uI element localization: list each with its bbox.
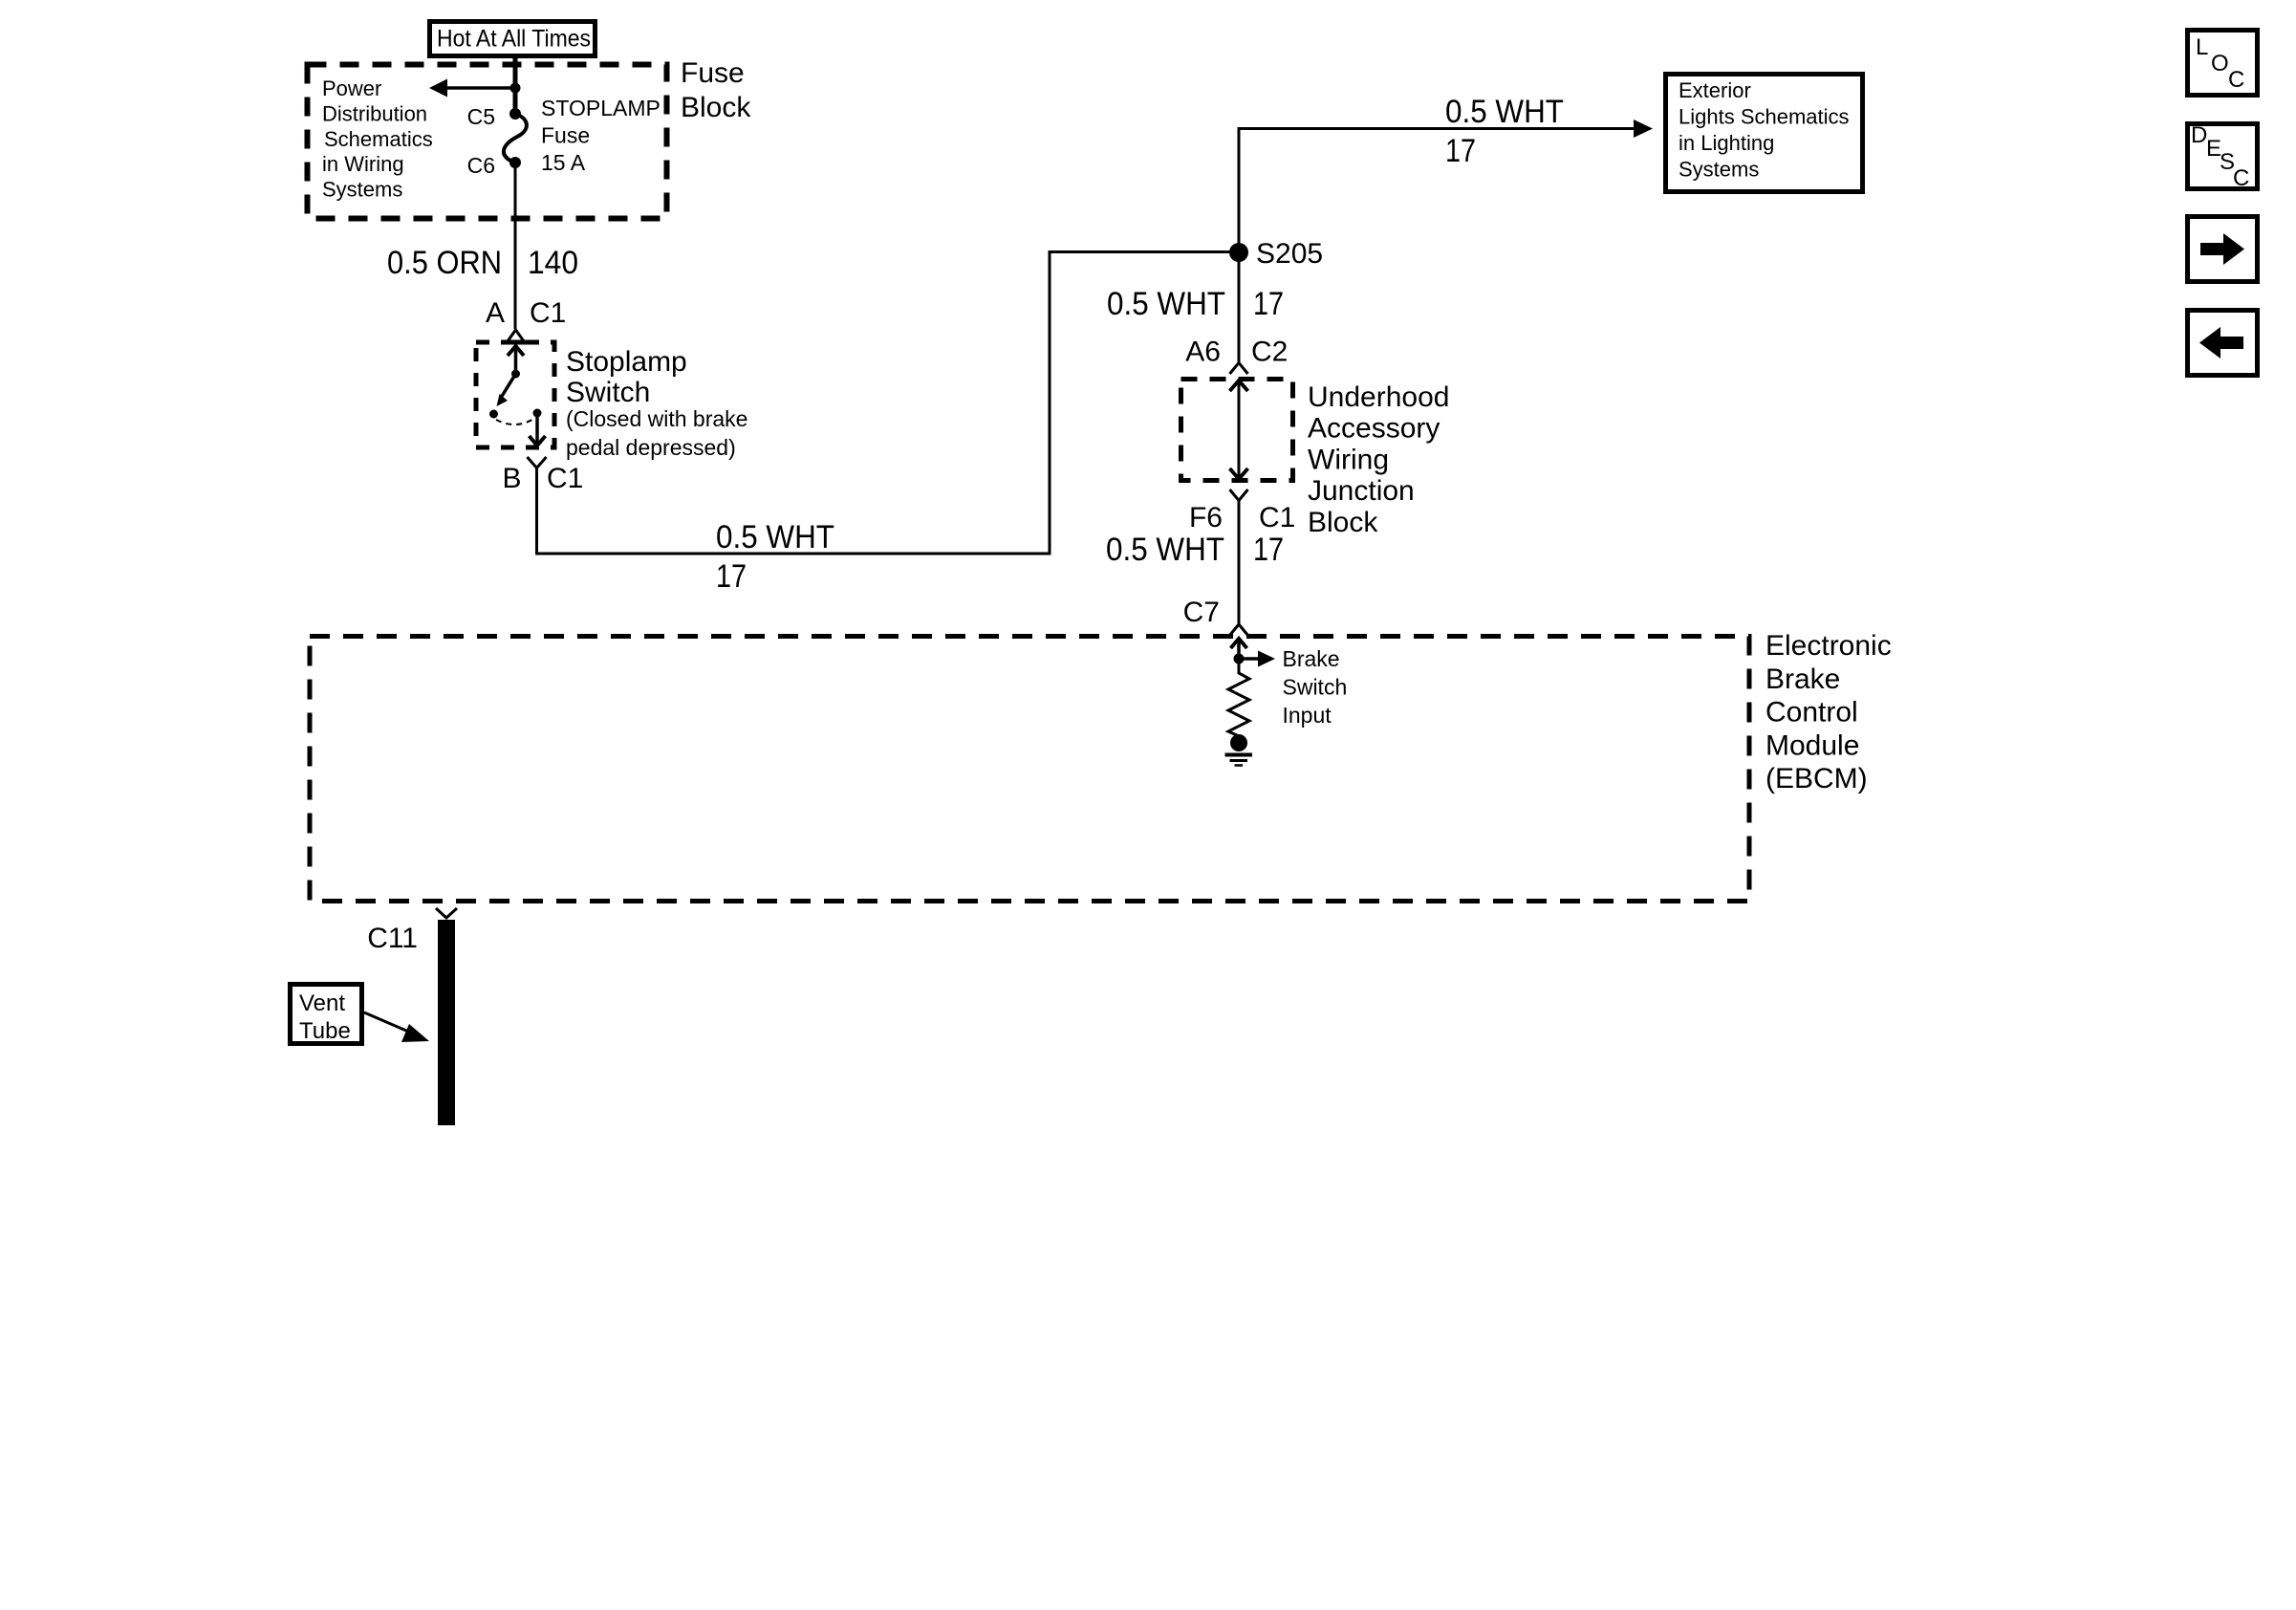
svg-text:Stoplamp: Stoplamp [566,346,687,378]
switch contact dot (left, open position) [489,410,498,419]
svg-text:Junction: Junction [1308,475,1415,507]
node: brake switch input junction dot [1234,654,1245,664]
svg-text:Exterior: Exterior [1679,78,1751,102]
svg-text:Fuse: Fuse [681,57,745,89]
svg-text:pedal depressed): pedal depressed) [566,435,736,460]
svg-text:Accessory: Accessory [1308,413,1440,445]
svg-text:Underhood: Underhood [1308,381,1449,413]
svg-text:Fuse: Fuse [541,123,590,148]
svg-text:D: D [2191,122,2207,148]
DESC nav box [2188,122,2258,191]
svg-text:Block: Block [681,92,751,123]
connector chevron at pin C7 [1230,624,1248,636]
svg-text:17: 17 [1253,532,1284,568]
svg-text:Wiring: Wiring [1308,444,1389,475]
wire: S205 up and right to exterior lights [1239,129,1636,253]
arrowhead left [429,79,447,98]
connector chevron at pin B [528,457,547,468]
svg-text:S205: S205 [1256,238,1323,270]
svg-text:17: 17 [716,558,747,595]
Hot At All Times box [430,22,596,56]
fuse element (S curve) [504,114,527,161]
junction node on feed wire [510,83,521,94]
svg-text:Distribution: Distribution [322,101,427,125]
arrowhead to exterior lights [1634,120,1653,138]
connector chevron at pin A [508,330,524,341]
switch fixed contact bar [502,340,530,345]
svg-text:(EBCM): (EBCM) [1765,763,1868,794]
svg-text:0.5 WHT: 0.5 WHT [1106,532,1224,568]
svg-text:Systems: Systems [322,178,402,202]
wire: B down, right, up to S205 [537,252,1240,555]
connector chevron at pin F6 [1230,490,1248,501]
EBCM dashed box [310,637,1749,902]
fuse block dashed box [308,65,667,219]
svg-text:(Closed with brake: (Closed with brake [566,406,747,431]
wire: feed from Hot At All Times into fuse block [513,55,518,114]
svg-text:F6: F6 [1189,502,1223,533]
svg-text:Systems: Systems [1679,158,1759,182]
fuse terminal C6 [509,157,521,168]
svg-text:Tube: Tube [299,1018,351,1044]
svg-text:0.5 WHT: 0.5 WHT [716,519,834,555]
svg-text:A: A [486,297,505,329]
junction block arrowhead down (at bottom edge) [1230,468,1248,479]
svg-text:15 A: 15 A [541,150,586,175]
switch arm arrowhead [497,394,509,406]
svg-text:C1: C1 [547,463,583,494]
svg-text:17: 17 [1445,133,1476,169]
svg-text:0.5 ORN: 0.5 ORN [387,245,502,281]
svg-text:140: 140 [528,245,578,281]
connector chevron at pin A6 [1230,363,1248,375]
svg-text:Hot At All Times: Hot At All Times [437,26,591,53]
switch pivot dot [511,370,520,379]
svg-text:0.5 WHT: 0.5 WHT [1445,94,1564,130]
exterior lights schematics box [1666,75,1863,192]
underhood accessory wiring junction block dashed box [1181,380,1293,481]
svg-text:17: 17 [1253,286,1284,322]
switch travel dashed arc [496,418,535,424]
wire: arrow to power distribution (left) [438,86,515,90]
vent tube label box [291,985,362,1044]
connector chevron at pin C11 [436,908,457,918]
junction block arrowhead up (at top edge) [1230,381,1248,391]
svg-text:Brake: Brake [1765,664,1840,695]
svg-text:C: C [2228,67,2244,93]
forward nav box [2188,217,2258,282]
svg-text:C11: C11 [367,923,418,954]
switch output arrow (down) [535,415,539,445]
svg-text:Input: Input [1283,703,1332,728]
svg-text:Control: Control [1765,697,1858,729]
svg-text:C7: C7 [1183,597,1220,628]
EBCM input arrow up [1237,639,1241,659]
ground symbol [1225,753,1253,757]
label Power Distribution Schematics in Wiring Systems [322,76,433,202]
svg-text:in Lighting: in Lighting [1679,131,1774,155]
switch input arrow (up) [514,346,518,372]
svg-text:Block: Block [1308,507,1378,538]
wire: C6 to stoplamp switch pin A [514,163,517,329]
label Brake Switch Input [1283,646,1348,728]
label STOPLAMP Fuse 15 A [541,96,661,175]
splice node S205 [1229,243,1248,262]
switch contact dot (right, closed position) [533,409,542,418]
svg-text:B: B [502,463,521,494]
svg-text:Switch: Switch [566,377,650,408]
svg-text:Switch: Switch [1283,675,1348,700]
LOC nav box [2188,31,2258,96]
svg-text:C1: C1 [1259,502,1295,533]
label Electronic Brake Control Module (EBCM) [1765,630,1892,794]
svg-text:L: L [2196,34,2208,60]
svg-text:C2: C2 [1251,337,1288,368]
svg-text:C5: C5 [467,104,495,129]
ground dot [1230,734,1247,751]
svg-text:Electronic: Electronic [1765,630,1892,662]
wire: F6 down to EBCM pin C7 [1238,501,1241,624]
svg-text:Module: Module [1765,729,1859,761]
svg-text:in Wiring: in Wiring [322,152,404,176]
svg-text:Vent: Vent [299,990,345,1016]
label Exterior Lights Schematics in Lighting Systems [1679,78,1850,182]
brake switch input arrow right [1239,657,1259,661]
svg-text:C1: C1 [530,297,566,329]
back nav box [2188,311,2258,376]
resistor (pull-down) [1228,664,1249,736]
fuse F1 STOPLAMP 15A: terminal C5 [509,108,521,120]
stoplamp switch dashed box [476,342,554,447]
svg-text:STOPLAMP: STOPLAMP [541,96,661,120]
svg-text:Lights Schematics: Lights Schematics [1679,105,1850,129]
svg-text:O: O [2211,51,2229,76]
svg-text:C6: C6 [467,153,495,178]
svg-text:Brake: Brake [1283,646,1340,671]
label Underhood Accessory Wiring Junction Block [1308,381,1449,538]
svg-text:0.5 WHT: 0.5 WHT [1107,286,1225,322]
junction block pass-through wire [1238,381,1241,478]
wire: S205 down to junction block pin A6 [1238,252,1241,362]
switch movable arm [501,374,516,398]
svg-text:A6: A6 [1185,337,1221,368]
vent tube leader arrow [364,1012,413,1033]
svg-text:Power: Power [322,76,381,100]
vent tube bar [438,920,455,1125]
svg-text:Schematics: Schematics [324,127,433,151]
svg-text:C: C [2233,165,2249,191]
